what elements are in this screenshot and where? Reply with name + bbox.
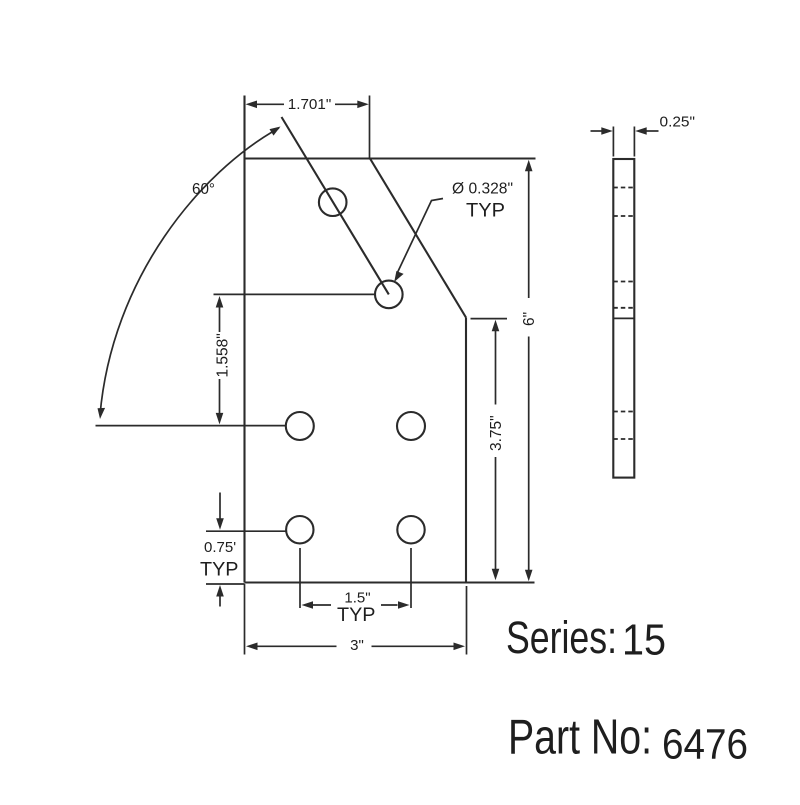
plate right edge (465, 318, 467, 583)
dim 1.701 extension line right (369, 96, 371, 159)
svg-text:1.558": 1.558" (215, 333, 232, 377)
hole diameter leader arrow (394, 271, 403, 282)
dim 1.5 extension line left (299, 548, 301, 608)
dim 3 dimension line and arrows (246, 643, 465, 651)
svg-text:15: 15 (622, 616, 666, 665)
dim 1.5 extension line right (410, 548, 412, 608)
extension line through row4 (206, 530, 286, 532)
svg-text:TYP: TYP (337, 605, 376, 626)
side view plate body (613, 159, 634, 478)
hole H1 top (319, 188, 347, 216)
plate chamfer edge (370, 159, 466, 318)
svg-text:6": 6" (521, 312, 538, 326)
dim 0.25 left arrow (591, 127, 613, 135)
hole H5 row4 left (286, 516, 313, 543)
svg-text:6476: 6476 (662, 721, 748, 769)
dim 1.701 dimension line and arrows (246, 101, 369, 109)
svg-text:1.701": 1.701" (288, 96, 332, 113)
plate top edge with extension right (245, 157, 536, 159)
dim 1.558 dimension line and arrows (216, 296, 224, 424)
plate bottom edge with extension right (245, 581, 535, 583)
dim 3.75 dimension line and arrows (492, 320, 500, 581)
svg-text:TYP: TYP (200, 559, 239, 580)
svg-text:0.75': 0.75' (204, 539, 236, 556)
dim 1.5 dimension line and arrows (302, 601, 410, 609)
hole H4 row3 right (397, 412, 425, 440)
dim 0.75 upper arrow (216, 493, 224, 530)
angle 60 arc (100, 128, 279, 415)
svg-text:3": 3" (350, 637, 364, 654)
side view solid joint line (613, 317, 634, 319)
side view hidden hole line 1a (613, 187, 634, 189)
svg-text:3.75": 3.75" (488, 415, 505, 451)
angle 60 arc arrow bottom (98, 408, 106, 419)
dim 0.25 extension line left (612, 127, 614, 157)
hole H6 row4 right (397, 516, 424, 543)
bottom edge left extension line (206, 583, 245, 585)
side view hidden hole line 1b (613, 215, 634, 217)
side view hidden hole line 3a (613, 411, 634, 413)
hole diameter leader line (398, 199, 443, 273)
dim 3.75 extension line (471, 318, 508, 320)
dim 0.75 lower arrow (216, 585, 224, 607)
svg-text:Ø 0.328": Ø 0.328" (452, 181, 513, 198)
dim 0.25 extension line right (633, 127, 635, 157)
svg-text:Part No:: Part No: (508, 711, 652, 765)
dim 3 extension line right (466, 586, 468, 655)
dim 6 inch dimension line and arrows (525, 160, 533, 582)
hole H2 (375, 281, 403, 309)
svg-text:TYP: TYP (466, 201, 505, 222)
side view hidden hole line 2a (613, 281, 634, 283)
extension line through row3 (96, 425, 286, 427)
diagonal construction line through holes H1 H2 (282, 117, 389, 294)
hole H3 row3 left (286, 412, 314, 440)
svg-text:0.25": 0.25" (660, 113, 696, 130)
svg-text:Series:: Series: (506, 612, 617, 663)
dim 3 extension line left (244, 584, 246, 655)
extension line through hole H2 row (214, 293, 375, 295)
angle 60 arc arrow top (270, 127, 281, 136)
plate left edge with extension up (243, 96, 245, 583)
side view hidden hole line 3b (613, 438, 634, 440)
side view hidden hole line 2b (613, 307, 634, 309)
svg-text:60°: 60° (192, 181, 215, 198)
dim 0.25 right arrow with tail (635, 127, 658, 135)
